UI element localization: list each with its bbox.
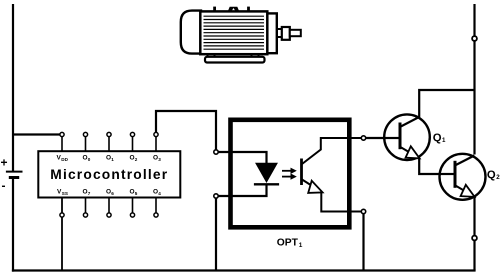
wire LED anode — [216, 152, 267, 163]
pin O7 terminal — [83, 213, 87, 217]
wire left rail bottom — [12, 179, 14, 272]
pin O3 lead — [155, 135, 157, 152]
phototransistor emitter — [302, 180, 312, 186]
Q2 emitter terminal — [472, 236, 477, 241]
wire left rail top — [12, 4, 14, 171]
svg-text:2: 2 — [135, 157, 138, 162]
pin VDD lead — [61, 135, 63, 152]
wire O3 to optocoupler input — [156, 111, 216, 152]
motor base risers — [208, 53, 215, 58]
motor left end cap — [181, 11, 201, 54]
svg-text:0: 0 — [88, 157, 91, 162]
motor M1 — [181, 7, 301, 63]
pin O2 terminal — [130, 132, 134, 136]
pin O5 lead — [132, 198, 134, 216]
svg-text:-: - — [2, 179, 6, 193]
transistor Q1 circle — [384, 114, 430, 160]
Q2 collector — [456, 156, 475, 166]
opto input terminal bottom — [214, 194, 218, 198]
motor right housing — [267, 13, 277, 53]
pin O6 lead — [108, 198, 110, 216]
phototransistor collector — [302, 138, 361, 164]
opto output terminal top — [361, 136, 365, 140]
pin O6 terminal — [107, 213, 111, 217]
motor shaft rod — [290, 30, 301, 36]
Q1 collector — [401, 90, 475, 127]
Q2 emitter wire to ground rail — [473, 197, 475, 271]
motor top tab left — [213, 7, 216, 13]
pin O4 lead — [155, 198, 157, 216]
pin O5 terminal — [130, 213, 134, 217]
LED D1 triangle — [256, 163, 277, 182]
phototransistor emitter wire — [321, 191, 361, 212]
Q2 emitter — [456, 186, 465, 191]
wire bottom rail — [12, 269, 476, 271]
motor top lug — [228, 7, 240, 12]
opto input terminal top — [214, 150, 218, 154]
right rail terminal — [472, 36, 477, 41]
svg-text:5: 5 — [135, 191, 138, 196]
battery B1 — [1, 156, 23, 193]
pin VSS lead + wire to ground rail — [61, 198, 63, 271]
LED cathode bar — [254, 183, 279, 185]
svg-text:Q: Q — [433, 132, 442, 144]
pin VDD terminal — [60, 132, 64, 136]
pin O4 terminal — [154, 213, 158, 217]
pin O0 terminal — [83, 132, 87, 136]
Q1 emitter arrowhead — [406, 146, 420, 158]
microcontroller U1 box — [38, 151, 180, 197]
pin O2 lead — [132, 135, 134, 152]
motor base slab — [205, 57, 265, 63]
Q2 base bar — [454, 161, 457, 188]
motor body fins — [204, 16, 265, 49]
svg-text:1: 1 — [299, 242, 303, 249]
Q1 base bar — [399, 123, 402, 150]
pin O3 terminal — [154, 132, 158, 136]
motor shaft step2 — [282, 27, 290, 40]
wire LED cathode — [216, 184, 267, 196]
svg-text:+: + — [1, 156, 8, 170]
Q2 base wire inside — [440, 173, 454, 175]
wire VDD branch — [13, 133, 62, 135]
motor body — [200, 11, 267, 54]
motor top tab right — [247, 7, 250, 13]
svg-text:7: 7 — [88, 191, 91, 196]
svg-text:Microcontroller: Microcontroller — [50, 167, 168, 182]
svg-text:SS: SS — [62, 191, 68, 196]
wire opto emitter to ground rail — [362, 214, 364, 271]
light arrow 1 — [282, 168, 297, 174]
motor shaft step1 — [276, 29, 283, 37]
pin O1 lead — [108, 135, 110, 152]
Q1 base wire inside — [385, 137, 399, 139]
pin VSS terminal — [60, 213, 64, 217]
svg-text:Q: Q — [487, 169, 496, 181]
svg-text:OPT: OPT — [277, 238, 299, 249]
pin O0 lead — [85, 135, 87, 152]
svg-text:2: 2 — [496, 174, 500, 181]
wire opto cathode to ground rail — [215, 196, 217, 271]
wire right rail upper — [473, 4, 475, 155]
svg-text:6: 6 — [111, 191, 114, 196]
optocoupler OPT1 box — [231, 120, 350, 228]
phototransistor emitter arrowhead — [308, 181, 322, 193]
svg-text:4: 4 — [158, 191, 161, 196]
Q2 emitter arrowhead — [461, 185, 475, 197]
svg-text:DD: DD — [61, 157, 68, 162]
Q1 emitter — [401, 147, 410, 152]
svg-text:1: 1 — [442, 137, 446, 144]
svg-text:3: 3 — [158, 157, 161, 162]
light arrow 2 — [282, 173, 297, 179]
opto output terminal bottom — [361, 209, 365, 213]
wire opto output to Q1 base — [366, 137, 399, 139]
pin O7 lead — [85, 198, 87, 216]
svg-text:1: 1 — [111, 157, 114, 162]
pin O1 terminal — [107, 132, 111, 136]
Q1 emitter wire to Q2 base — [419, 158, 441, 175]
transistor Q2 circle — [440, 154, 486, 200]
phototransistor base bar — [300, 159, 303, 186]
